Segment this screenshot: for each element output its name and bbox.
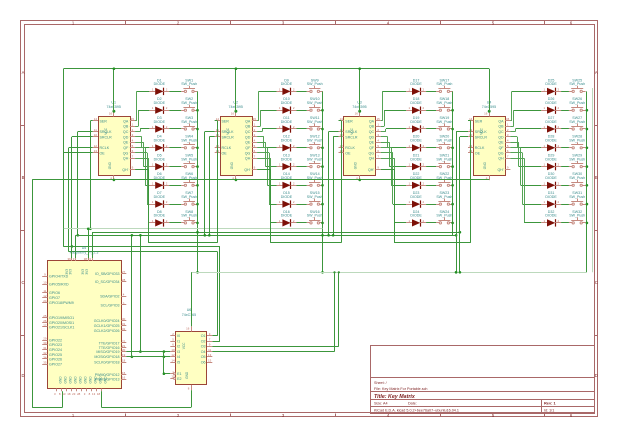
wire U6 O4 to return bus (212, 272, 334, 351)
wire diode D21 cathode to SW21 (426, 166, 436, 168)
wire U3 SRCLR drop (332, 137, 339, 237)
svg-text:SW_Push: SW_Push (307, 214, 323, 218)
wire U3 QB to row 2 (381, 110, 406, 126)
title block frame (371, 346, 595, 414)
svg-text:GND: GND (185, 371, 189, 379)
svg-text:20: 20 (122, 348, 126, 352)
svg-text:QE: QE (245, 141, 251, 145)
wire U1 QB to row 2 (135, 110, 149, 126)
diode D20 1N4148 row4 col3 (406, 135, 426, 152)
wire U6 GND down (191, 390, 193, 407)
wire U2 QB to row 2 (257, 110, 276, 126)
svg-text:28: 28 (122, 278, 126, 282)
trunk T5 (69, 252, 218, 336)
svg-text:15: 15 (122, 371, 126, 375)
wire U3 QA to row 1 (381, 91, 406, 121)
svg-text:GND: GND (354, 161, 358, 169)
wire diode D15 cathode to SW15 (297, 204, 307, 206)
wire diode D18 cathode to SW18 (426, 110, 436, 112)
switch SW31 SW_Push row7 col4 (569, 191, 586, 205)
wire U3 QD to row 4 (381, 137, 406, 148)
svg-text:SW_Push: SW_Push (181, 82, 197, 86)
diode D31 1N4148 row7 col4 (541, 191, 561, 208)
wire U1 QG to row 7 (135, 153, 149, 205)
wire U4 QC to row 3 (510, 129, 541, 132)
wire U1 SRCLK (77, 132, 93, 237)
wire diode D11 cathode to SW11 (297, 128, 307, 130)
svg-text:GPIO24: GPIO24 (49, 348, 62, 352)
wire diode D12 cathode to SW12 (297, 147, 307, 149)
svg-text:GND: GND (93, 376, 97, 384)
switch SW10 SW_Push row2 col2 (307, 97, 323, 111)
svg-text:MOSI0/GPIO18: MOSI0/GPIO18 (94, 355, 119, 359)
svg-text:GPIO23: GPIO23 (49, 343, 62, 347)
svg-text:OE: OE (345, 151, 351, 155)
wire U3 SRCLK drop (327, 132, 338, 237)
svg-text:25: 25 (43, 314, 47, 318)
svg-text:32: 32 (122, 327, 126, 331)
diode D24 1N4148 row8 col3 (406, 210, 426, 227)
svg-text:DIODE: DIODE (154, 195, 166, 199)
svg-text:I3: I3 (177, 350, 180, 354)
shift register U3 74xC595 (339, 101, 381, 181)
wire U2 QA to row 1 (257, 91, 276, 121)
wire U3 QG to row 7 (381, 153, 406, 205)
diode D27 1N4148 row3 col4 (541, 116, 561, 133)
svg-text:12: 12 (171, 353, 175, 357)
wire diode D6 cathode to SW6 (169, 185, 181, 187)
wire U1 RCLK (69, 148, 93, 252)
svg-text:GND: GND (64, 376, 68, 384)
svg-text:SER: SER (222, 119, 230, 123)
wire diode D5 cathode to SW5 (169, 166, 181, 168)
svg-text:SW_Push: SW_Push (181, 195, 197, 199)
svg-text:GND: GND (59, 376, 63, 384)
svg-text:SW_Push: SW_Push (181, 139, 197, 143)
svg-text:DIODE: DIODE (154, 120, 166, 124)
switch SW32 SW_Push row8 col4 (569, 210, 586, 224)
trunk T2 col1 (92, 231, 460, 258)
svg-text:DIODE: DIODE (545, 139, 557, 143)
svg-text:16: 16 (109, 112, 113, 116)
svg-text:Title: Key Matrix: Title: Key Matrix (374, 394, 416, 400)
svg-text:O3: O3 (201, 345, 206, 349)
svg-text:DIODE: DIODE (281, 82, 293, 86)
wire diode D14 cathode to SW14 (297, 185, 307, 187)
svg-text:31: 31 (122, 322, 126, 326)
svg-text:QB: QB (123, 125, 129, 129)
switch SW12 SW_Push row4 col2 (307, 135, 323, 149)
wire U2 QF to row 6 (257, 148, 276, 186)
svg-text:16: 16 (484, 112, 488, 116)
svg-text:GPIO6: GPIO6 (49, 291, 60, 295)
svg-text:Sheet: /: Sheet: / (374, 381, 388, 385)
column bus col1 (196, 91, 199, 272)
wire U4 QE to row 5 (510, 142, 541, 166)
svg-text:U5: U5 (82, 246, 87, 250)
svg-text:SRCLR: SRCLR (100, 135, 113, 139)
svg-text:QB: QB (245, 125, 251, 129)
svg-text:QH': QH' (368, 168, 374, 172)
wire U4 QH to row 8 (510, 158, 541, 223)
svg-text:I1: I1 (177, 339, 180, 343)
switch SW2 SW_Push row2 col1 (181, 97, 197, 111)
switch SW27 SW_Push row3 col4 (569, 116, 586, 130)
svg-text:QB: QB (498, 125, 504, 129)
diode D10 1N4148 row2 col2 (277, 97, 297, 114)
svg-text:GPIO19/MISO1: GPIO19/MISO1 (49, 316, 74, 320)
switch SW19 SW_Push row3 col3 (436, 116, 453, 130)
switch SW17 SW_Push row1 col3 (436, 78, 453, 92)
svg-text:QF: QF (369, 146, 375, 150)
wire diode D19 cathode to SW19 (426, 128, 436, 130)
svg-text:VCC: VCC (479, 127, 483, 134)
svg-text:GCLK0/GPIO24: GCLK0/GPIO24 (94, 319, 120, 323)
wire MOSI drop (139, 234, 142, 353)
svg-text:GND: GND (103, 376, 107, 384)
svg-text:IO_SB/GPIO33: IO_SB/GPIO33 (95, 272, 120, 276)
wire diode D29 cathode to SW29 (561, 166, 569, 168)
svg-text:DIODE: DIODE (154, 139, 166, 143)
svg-text:GPIO7: GPIO7 (49, 296, 60, 300)
switch SW25 SW_Push row1 col4 (569, 78, 586, 92)
svg-text:SER: SER (100, 119, 108, 123)
svg-text:RCLK: RCLK (475, 146, 485, 150)
switch SW23 SW_Push row7 col3 (436, 191, 453, 205)
svg-text:DIODE: DIODE (410, 82, 422, 86)
svg-text:SW_Push: SW_Push (307, 157, 323, 161)
svg-text:GND: GND (69, 376, 73, 384)
diode D5 1N4148 row5 col1 (149, 154, 169, 171)
svg-text:SRCLR: SRCLR (222, 135, 235, 139)
diode D13 1N4148 row5 col2 (277, 154, 297, 171)
diode D12 1N4148 row4 col2 (277, 135, 297, 152)
svg-text:SW_Push: SW_Push (436, 139, 452, 143)
svg-text:GND: GND (88, 376, 92, 384)
svg-text:SW_Push: SW_Push (436, 195, 452, 199)
svg-text:Size: A4: Size: A4 (374, 402, 388, 406)
svg-text:OE: OE (100, 151, 106, 155)
svg-text:QE: QE (498, 141, 504, 145)
svg-text:SW_Push: SW_Push (181, 101, 197, 105)
svg-text:15: 15 (377, 117, 381, 121)
frame column labels 1-6 (72, 21, 573, 418)
svg-text:11: 11 (208, 348, 211, 352)
switch SW4 SW_Push row4 col1 (181, 135, 197, 149)
svg-text:DIODE: DIODE (410, 101, 422, 105)
switch SW9 SW_Push row1 col2 (307, 78, 323, 92)
svg-text:QC: QC (245, 130, 251, 134)
svg-text:SER: SER (345, 119, 353, 123)
svg-text:File: Key Matrix For Portable.: File: Key Matrix For Portable.sch (374, 387, 428, 391)
diode D18 1N4148 row2 col3 (406, 97, 426, 114)
svg-text:35: 35 (43, 360, 47, 364)
diode D30 1N4148 row6 col4 (541, 172, 561, 189)
switch SW20 SW_Push row4 col3 (436, 135, 453, 149)
wire diode D17 cathode to SW17 (426, 91, 436, 93)
svg-text:GPIO25: GPIO25 (49, 353, 62, 357)
svg-text:24: 24 (43, 299, 47, 303)
wire U6 enable tie (163, 352, 171, 375)
title block size date rev (374, 401, 557, 406)
svg-text:PWM0/GPIO12: PWM0/GPIO12 (95, 373, 120, 377)
svg-text:I0: I0 (177, 334, 180, 338)
svg-text:QH': QH' (498, 168, 504, 172)
svg-text:DIODE: DIODE (410, 214, 422, 218)
wire U6 O3 to return bus (212, 272, 338, 346)
diode D16 1N4148 row8 col2 (277, 210, 297, 227)
wire U1 QH' to U2 SER daisy chain (135, 121, 217, 243)
svg-text:DIODE: DIODE (545, 120, 557, 124)
switch SW28 SW_Push row4 col4 (569, 135, 586, 149)
svg-text:VCC: VCC (226, 127, 230, 134)
svg-text:DIODE: DIODE (545, 101, 557, 105)
svg-text:O2: O2 (201, 339, 206, 343)
svg-text:SW_Push: SW_Push (181, 214, 197, 218)
wire diode D10 cathode to SW10 (297, 110, 307, 112)
svg-text:B: B (22, 175, 25, 180)
wire diode D8 cathode to SW8 (169, 222, 181, 224)
svg-text:VCC: VCC (350, 127, 354, 134)
svg-text:18: 18 (122, 358, 126, 362)
svg-text:DIODE: DIODE (281, 195, 293, 199)
svg-text:SCL/GPIO3: SCL/GPIO3 (101, 303, 120, 307)
svg-text:SW_Push: SW_Push (569, 195, 585, 199)
svg-text:DIODE: DIODE (281, 120, 293, 124)
svg-text:I2: I2 (177, 345, 180, 349)
wire diode D3 cathode to SW3 (169, 128, 181, 130)
svg-text:DIODE: DIODE (154, 82, 166, 86)
svg-text:A: A (22, 70, 25, 75)
svg-text:QH': QH' (244, 168, 250, 172)
wire diode D13 cathode to SW13 (297, 166, 307, 168)
wire diode D24 cathode to SW24 (426, 222, 436, 224)
svg-text:O5: O5 (201, 355, 206, 359)
wire U3 QC to row 3 (381, 129, 406, 132)
svg-text:DIODE: DIODE (154, 101, 166, 105)
wire diode D7 cathode to SW7 (169, 204, 181, 206)
svg-text:SW_Push: SW_Push (307, 195, 323, 199)
wire diode D4 cathode to SW4 (169, 147, 181, 149)
svg-text:O1: O1 (201, 334, 206, 338)
wire U1 SRCLR (71, 137, 93, 259)
svg-text:GND: GND (230, 161, 234, 169)
wire diode D16 cathode to SW16 (297, 222, 307, 224)
wire U2 QH' to U3 SER daisy chain (257, 121, 341, 243)
svg-text:SW_Push: SW_Push (181, 157, 197, 161)
switch SW1 SW_Push row1 col1 (181, 78, 197, 92)
frame row labels A-D (21, 70, 597, 378)
svg-text:QH': QH' (122, 168, 128, 172)
wire Pico top pins to trunks (72, 228, 90, 259)
svg-text:GCLK2/GPIO26: GCLK2/GPIO26 (94, 329, 120, 333)
svg-text:74xC165: 74xC165 (182, 313, 196, 317)
svg-text:D: D (595, 373, 598, 378)
svg-text:16: 16 (122, 376, 126, 380)
wire Pico MOSI to U6 (126, 350, 170, 353)
switch SW11 SW_Push row3 col2 (307, 116, 323, 130)
svg-text:DIODE: DIODE (545, 176, 557, 180)
svg-text:30: 30 (43, 341, 47, 345)
svg-text:SER: SER (475, 119, 483, 123)
svg-text:QG: QG (369, 151, 375, 155)
wire MISO drop (131, 234, 134, 358)
svg-text:16: 16 (186, 327, 190, 331)
svg-text:15: 15 (253, 117, 257, 121)
wire diode D30 cathode to SW30 (561, 185, 569, 187)
wire diode D25 cathode to SW25 (561, 91, 569, 93)
wire U1 QH to row 8 (135, 158, 149, 223)
diode D11 1N4148 row3 col2 (277, 116, 297, 133)
svg-text:SRCLR: SRCLR (345, 135, 358, 139)
diode D8 1N4148 row8 col1 (149, 210, 169, 227)
wire U4 SRCLR drop (459, 137, 468, 274)
svg-text:VCC: VCC (182, 342, 186, 349)
wire U2 SRCLR drop (208, 137, 215, 237)
wire diode D20 cathode to SW20 (426, 147, 436, 149)
wire U1 OE (63, 153, 92, 247)
diode D4 1N4148 row4 col1 (149, 135, 169, 152)
svg-text:IO_SC/GPIO34: IO_SC/GPIO34 (95, 280, 120, 284)
svg-text:QG: QG (245, 151, 251, 155)
svg-text:GND: GND (483, 161, 487, 169)
wire U3 QE to row 5 (381, 142, 406, 166)
svg-text:QH: QH (498, 157, 504, 161)
wire diode D26 cathode to SW26 (561, 110, 569, 112)
svg-text:15: 15 (506, 117, 510, 121)
svg-text:QD: QD (245, 135, 251, 139)
svg-text:QD: QD (369, 135, 375, 139)
svg-text:QC: QC (123, 130, 129, 134)
svg-text:3V3: 3V3 (69, 269, 73, 275)
wire Pico bottom pin to ground run (101, 391, 191, 407)
diode D32 1N4148 row8 col4 (541, 210, 561, 227)
wire U2 QH to row 8 (257, 158, 276, 223)
switch SW22 SW_Push row6 col3 (436, 172, 453, 186)
wire U4 QB to row 2 (510, 110, 541, 126)
svg-text:SW_Push: SW_Push (569, 214, 585, 218)
svg-text:11: 11 (94, 128, 97, 132)
svg-text:DIODE: DIODE (281, 214, 293, 218)
diode D22 1N4148 row6 col3 (406, 172, 426, 189)
svg-text:12: 12 (43, 294, 47, 298)
switch SW16 SW_Push row8 col2 (307, 210, 323, 224)
svg-text:QD: QD (498, 135, 504, 139)
svg-text:QE: QE (123, 141, 129, 145)
diode D19 1N4148 row3 col3 (406, 116, 426, 133)
svg-text:Rev: 1: Rev: 1 (544, 401, 557, 406)
svg-text:16: 16 (231, 112, 235, 116)
pale vertical right edge (592, 88, 594, 272)
svg-text:DIODE: DIODE (545, 157, 557, 161)
svg-text:31: 31 (43, 346, 47, 350)
wire diode D23 cathode to SW23 (426, 204, 436, 206)
svg-text:10: 10 (94, 133, 98, 137)
GND trunk (32, 179, 489, 408)
shift register U6 74xC165 (170, 308, 212, 390)
diode D28 1N4148 row4 col4 (541, 135, 561, 152)
svg-text:GPIO18/PWM9: GPIO18/PWM9 (49, 301, 74, 305)
svg-text:DIODE: DIODE (410, 120, 422, 124)
wire U3 QH' to U4 SER daisy chain (381, 121, 471, 243)
pale column return bus (191, 271, 587, 274)
diode D15 1N4148 row7 col2 (277, 191, 297, 208)
wire U2 QE to row 5 (257, 142, 276, 166)
svg-text:C: C (595, 280, 598, 285)
svg-text:QA: QA (245, 119, 251, 123)
svg-text:18: 18 (67, 392, 71, 396)
trunk T3 col2 (76, 234, 457, 258)
svg-text:GPIO5/RXD: GPIO5/RXD (49, 282, 69, 286)
wire Pico MISO to U6 (126, 356, 170, 359)
svg-text:GND: GND (84, 376, 88, 384)
svg-text:O6: O6 (201, 360, 206, 364)
svg-text:TTE/GPIO17: TTE/GPIO17 (99, 341, 120, 345)
svg-text:GND: GND (108, 161, 112, 169)
wire U4 SRCLK drop (455, 132, 468, 274)
switch SW3 SW_Push row3 col1 (181, 116, 197, 130)
VCC top bus (64, 67, 490, 111)
switch SW6 SW_Push row6 col1 (181, 172, 197, 186)
switch SW5 SW_Push row5 col1 (181, 154, 197, 168)
title block kicad id (374, 408, 554, 412)
wire U2 SRCLK drop (204, 132, 215, 237)
svg-text:14: 14 (171, 358, 175, 362)
svg-text:34: 34 (43, 355, 47, 359)
svg-text:27: 27 (122, 270, 126, 274)
wire U4 QG to row 7 (510, 153, 541, 205)
svg-text:30: 30 (122, 317, 126, 321)
column bus col2 (321, 91, 324, 272)
svg-text:GCLK1/GPIO25: GCLK1/GPIO25 (94, 324, 120, 328)
diode D25 1N4148 row1 col4 (541, 78, 561, 95)
wire diode D27 cathode to SW27 (561, 128, 569, 130)
svg-text:RCLK: RCLK (100, 146, 110, 150)
svg-text:DIODE: DIODE (410, 139, 422, 143)
svg-text:SW_Push: SW_Push (569, 82, 585, 86)
switch SW18 SW_Push row2 col3 (436, 97, 453, 111)
svg-text:GND: GND (79, 376, 83, 384)
svg-text:36: 36 (67, 257, 71, 261)
svg-text:Date:: Date: (408, 402, 417, 406)
svg-text:SW_Push: SW_Push (569, 157, 585, 161)
trunk junctions (196, 231, 461, 274)
wire U1 QF to row 6 (135, 148, 149, 186)
switch SW7 SW_Push row7 col1 (181, 191, 197, 205)
svg-text:Raspberry_Pi_2.3: Raspberry_Pi_2.3 (70, 251, 99, 255)
svg-text:SW_Push: SW_Push (307, 120, 323, 124)
shift register U2 74xC595 (215, 101, 257, 181)
wire VCC drop to trunk (63, 69, 65, 229)
diode D1 1N4148 row1 col1 (149, 78, 169, 95)
svg-text:I5: I5 (177, 360, 180, 364)
shift register U4 74xC595 (468, 101, 510, 181)
switch SW14 SW_Push row6 col2 (307, 172, 323, 186)
svg-text:DIODE: DIODE (410, 195, 422, 199)
wire diode D9 cathode to SW9 (297, 91, 307, 93)
svg-text:26: 26 (43, 319, 47, 323)
svg-text:10: 10 (43, 280, 47, 284)
svg-text:13: 13 (94, 149, 98, 153)
svg-text:GND: GND (74, 376, 78, 384)
svg-text:SW_Push: SW_Push (307, 82, 323, 86)
wire U1 QC to row 3 (135, 129, 149, 132)
svg-text:13: 13 (208, 353, 212, 357)
switch SW13 SW_Push row5 col2 (307, 154, 323, 168)
svg-text:QF: QF (245, 146, 251, 150)
svg-text:D: D (21, 373, 24, 378)
diode D2 1N4148 row2 col1 (149, 97, 169, 114)
